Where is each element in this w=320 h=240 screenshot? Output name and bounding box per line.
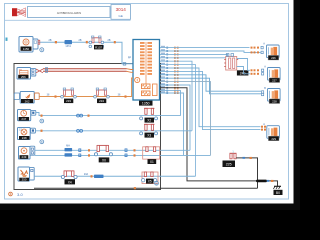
fog lamp 227 pin pair: [262, 69, 264, 75]
right pin labels column: [161, 46, 165, 93]
switch 237 on row5 right: [143, 147, 160, 164]
wire row1: [38, 42, 133, 64]
header underline: [5, 19, 131, 21]
fog lamp 227 (front right): [268, 68, 281, 83]
wire R11 joins row5 lower from right: [160, 82, 211, 156]
svg-text:248: 248: [22, 136, 27, 140]
svg-text:233: 233: [66, 99, 71, 103]
connector pin box of 256: [31, 69, 36, 76]
wire from 225 to ground junction: [236, 158, 257, 188]
wire R13 black to ground junction: [160, 88, 258, 181]
eyelet B symbol below row1: [40, 48, 44, 52]
wire row5 upper: [35, 149, 190, 151]
fog lamp 229 (rear fog): [267, 126, 280, 141]
wire R3 to relay plate: [160, 54, 228, 57]
fog lamp 226 connectors: [251, 47, 260, 54]
ground symbol MH: [273, 186, 282, 195]
orange splice on 225 wire: [250, 157, 252, 159]
wire R6 joins row6: [160, 65, 196, 177]
outer sheet frame: [5, 4, 289, 200]
wire row6: [34, 175, 195, 177]
svg-text:X4: X4: [68, 180, 72, 184]
splice row4: [41, 130, 43, 132]
horn component 250: [18, 167, 30, 182]
svg-text:2B: 2B: [49, 39, 52, 42]
splice row6: [91, 175, 93, 177]
wire red A1: [43, 68, 127, 70]
eyelet near row6 corner: [155, 181, 159, 185]
diagnostic socket 225: [223, 150, 237, 167]
svg-text:256: 256: [21, 75, 26, 79]
component 272 (sensor, top-left): [19, 37, 33, 53]
svg-text:ANTIBROUILLARDS: ANTIBROUILLARDS: [57, 11, 81, 15]
svg-text:137A: 137A: [65, 45, 71, 48]
block internal relay symbols: [135, 77, 157, 95]
footer revision glyph: [9, 192, 13, 196]
svg-text:250: 250: [22, 178, 27, 182]
svg-text:X0: X0: [102, 158, 106, 162]
margin marker: [6, 38, 8, 41]
splice B2: [125, 95, 127, 97]
pin box of 249: [30, 146, 35, 155]
wire row4: [35, 130, 192, 132]
wire R4 to relay plate: [160, 57, 232, 59]
splice on ground bus: [134, 187, 136, 189]
pin mark row1 at connector: [38, 40, 40, 44]
header harness icon: [12, 8, 26, 17]
svg-text:MH: MH: [66, 144, 70, 147]
svg-text:X3: X3: [147, 134, 151, 138]
contact 235 on row6: [61, 171, 77, 185]
relay R107 on row1: [89, 36, 104, 50]
wire row3: [36, 113, 181, 116]
twisted pair cross: [36, 69, 43, 73]
svg-text:20A: 20A: [84, 173, 89, 176]
block label 645: [139, 101, 153, 106]
red pair entry pins to block: [127, 69, 134, 73]
connector pins row5: [79, 149, 81, 157]
svg-text:225: 225: [226, 163, 232, 167]
scan black band right: [294, 0, 301, 210]
svg-text:1350: 1350: [142, 102, 150, 106]
pin into block row1: [123, 63, 126, 66]
wire R8 to fog lamp rear row2: [160, 71, 261, 129]
svg-text:R107: R107: [95, 46, 102, 50]
orange connector column: [174, 47, 179, 94]
pin box of 247: [31, 110, 36, 115]
svg-text:X5: X5: [148, 180, 152, 184]
relay 233 on row B: [61, 88, 77, 103]
wire from relay plate to fog lamp mid row1: [237, 59, 250, 71]
wire red A2: [43, 70, 127, 72]
svg-text:3-0: 3-0: [17, 192, 24, 197]
splices row5 right: [134, 149, 136, 156]
scan black band bottom: [0, 204, 300, 211]
switch contact 239 on row4: [140, 124, 158, 137]
wire R15 joins row5 lower: [160, 93, 184, 155]
connector pin box of component 272: [33, 39, 38, 49]
switch 236 on row5: [94, 145, 112, 162]
central interconnection unit 645: [133, 40, 160, 101]
svg-text:228: 228: [272, 100, 277, 104]
block right pin ticks: [166, 47, 168, 94]
svg-text:B0: B0: [276, 191, 280, 195]
wire R5 joins row4: [160, 61, 192, 131]
header sheet number box 3014: [111, 5, 131, 20]
orange splice on ground wire: [271, 180, 273, 182]
relay 234 on row B: [94, 88, 110, 103]
svg-text:226: 226: [271, 56, 276, 60]
block fuse ladder: [140, 42, 152, 84]
eyelet row4: [40, 140, 44, 144]
connector pair on red wires: [46, 68, 48, 70]
svg-text:249: 249: [21, 155, 26, 159]
fog lamp 228 pin pair: [262, 91, 264, 96]
clock gauge component 247: [18, 110, 31, 122]
svg-text:229: 229: [271, 137, 276, 141]
svg-text:262: 262: [25, 99, 30, 103]
wire R2 to fog lamp left: [160, 51, 261, 52]
splice row3 mid: [88, 115, 90, 117]
wire R9 to fog lamp right row1: [160, 75, 261, 91]
fog lamp 226 pin pair: [261, 46, 263, 53]
svg-text:1150: 1150: [23, 47, 30, 51]
svg-text:B: B: [41, 48, 43, 52]
wire from relay plate to fog lamp mid row2: [237, 67, 250, 74]
wire R1 to fog lamp left: [160, 47, 250, 49]
splice row3: [41, 115, 43, 117]
svg-text:227: 227: [272, 79, 277, 83]
fog lamp 226 (front left): [267, 45, 280, 60]
ground junction splice: [257, 180, 266, 183]
fog lamp 228 (rear): [268, 89, 281, 104]
eyelet row3: [40, 119, 44, 123]
svg-text:234: 234: [99, 99, 104, 103]
svg-text:PP: PP: [128, 57, 132, 60]
harness label plate row6: [94, 175, 104, 178]
connector pair row4: [77, 129, 83, 132]
wire R14 joins row3: [160, 91, 181, 116]
contact 238b on row6 right: [142, 172, 159, 184]
blue tick on 225 wire: [243, 157, 246, 159]
blue tick on ground wire: [267, 180, 269, 182]
switch contact 238 on row3: [140, 108, 158, 122]
svg-text:2B: 2B: [79, 39, 82, 42]
svg-text:247: 247: [21, 117, 26, 121]
svg-text:X2: X2: [147, 119, 151, 123]
svg-text:X1: X1: [150, 160, 154, 164]
splice B1: [55, 95, 57, 97]
wire row B orange: [39, 78, 133, 97]
splices row5: [88, 149, 90, 156]
splice dot row1: [55, 41, 57, 43]
fan switch component 248: [18, 128, 31, 141]
wire R12 joins row5 upper: [160, 85, 190, 150]
connector pins row5 right: [125, 149, 127, 157]
wire row5 lower: [35, 154, 211, 156]
fog lamp 229 connectors: [261, 126, 266, 131]
wire R7 to fog lamp rear row1: [160, 68, 261, 127]
ground bus wire along bottom: [34, 187, 258, 189]
wire junction to ground: [266, 181, 278, 186]
inner equipment frame: [14, 64, 161, 190]
harness label plate row1: [65, 40, 73, 48]
blower motor component 262: [14, 92, 39, 104]
svg-text:3014: 3014: [116, 7, 127, 12]
connector pair row1: [86, 41, 88, 44]
svg-text:GE: GE: [119, 14, 123, 18]
harness bundle marker row5: [65, 144, 73, 156]
pin box of 250: [30, 167, 35, 180]
splice dot row1 right: [114, 41, 116, 43]
heater resistor component 256: [17, 68, 31, 80]
relay plate label 240: [237, 70, 249, 75]
pin box of 248: [31, 128, 36, 133]
connector pair row3: [77, 114, 83, 117]
svg-text:2B: 2B: [108, 39, 111, 42]
wire R10 to fog lamp right row2: [160, 78, 261, 94]
header title box: [28, 7, 111, 18]
fog lamp 227 connectors: [251, 69, 260, 75]
instrument component 249: [19, 147, 31, 160]
